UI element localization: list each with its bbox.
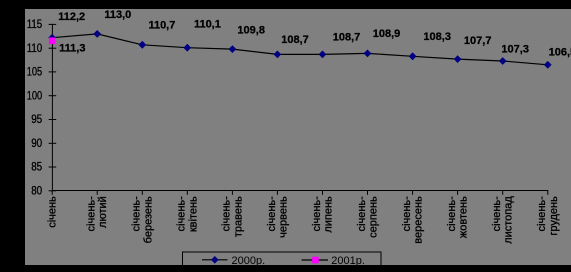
svg-text:107,7: 107,7 [464,35,492,47]
svg-text:січень-: січень- [446,196,458,232]
svg-text:108,7: 108,7 [333,32,361,44]
legend box [183,252,382,266]
svg-text:січень-: січень- [131,196,143,232]
svg-text:95: 95 [31,114,42,126]
svg-text:105: 105 [27,67,43,79]
svg-text:січень-: січень- [356,196,368,232]
svg-text:листопад: листопад [503,196,515,244]
svg-text:111,3: 111,3 [59,42,85,54]
svg-text:серпень: серпень [368,196,380,238]
svg-text:112,2: 112,2 [58,11,85,23]
svg-text:110,7: 110,7 [148,20,175,32]
series 2000 diamond markers [48,30,551,69]
legend entry 2000 line [202,259,228,261]
svg-text:85: 85 [31,162,42,174]
x-axis ticks [52,191,548,195]
bottom black band [0,265,571,272]
svg-text:квітень: квітень [187,196,199,232]
svg-text:січень-: січень- [176,196,188,232]
y-axis labels [27,19,43,197]
series 2001 marker (square, січень=111.3) [49,38,56,45]
legend entry 2001 line [302,259,329,261]
svg-text:109,8: 109,8 [237,24,265,36]
svg-text:108,3: 108,3 [423,31,451,43]
svg-text:110: 110 [27,43,43,55]
svg-text:80: 80 [31,186,42,198]
svg-text:червень: червень [277,196,289,238]
y-axis [51,24,53,191]
svg-text:лютий: лютий [97,196,109,228]
svg-text:січень-: січень- [311,196,323,232]
svg-text:108,7: 108,7 [281,34,309,46]
svg-text:травень: травень [232,196,244,237]
series 2000 line [52,34,548,65]
legend entry 2001 square [312,257,319,264]
svg-text:113,0: 113,0 [104,9,131,21]
svg-text:березень: березень [142,196,154,243]
svg-text:вересень: вересень [413,196,425,244]
svg-text:90: 90 [31,138,42,150]
svg-text:115: 115 [27,19,43,31]
svg-text:січень-: січень- [401,196,413,232]
svg-text:107,3: 107,3 [501,44,529,56]
svg-text:грудень: грудень [548,196,560,236]
svg-text:106,5: 106,5 [549,47,571,59]
svg-text:січень-: січень- [221,196,233,232]
svg-text:108,9: 108,9 [373,28,401,40]
y-axis ticks [49,24,57,190]
svg-text:жовтень: жовтень [458,196,470,238]
svg-text:січень-: січень- [536,196,548,232]
svg-text:110,1: 110,1 [194,19,221,31]
svg-text:січень: січень [46,196,58,228]
data labels 2000 [58,9,571,59]
legend entry 2000 diamond [211,256,219,264]
svg-text:січень-: січень- [491,196,503,232]
svg-text:100: 100 [27,90,43,102]
x-axis category labels (rotated 90deg) [46,196,559,244]
x-axis [52,190,548,192]
svg-text:січень-: січень- [266,196,278,232]
svg-text:січень-: січень- [86,196,98,232]
svg-text:липень: липень [323,196,335,233]
